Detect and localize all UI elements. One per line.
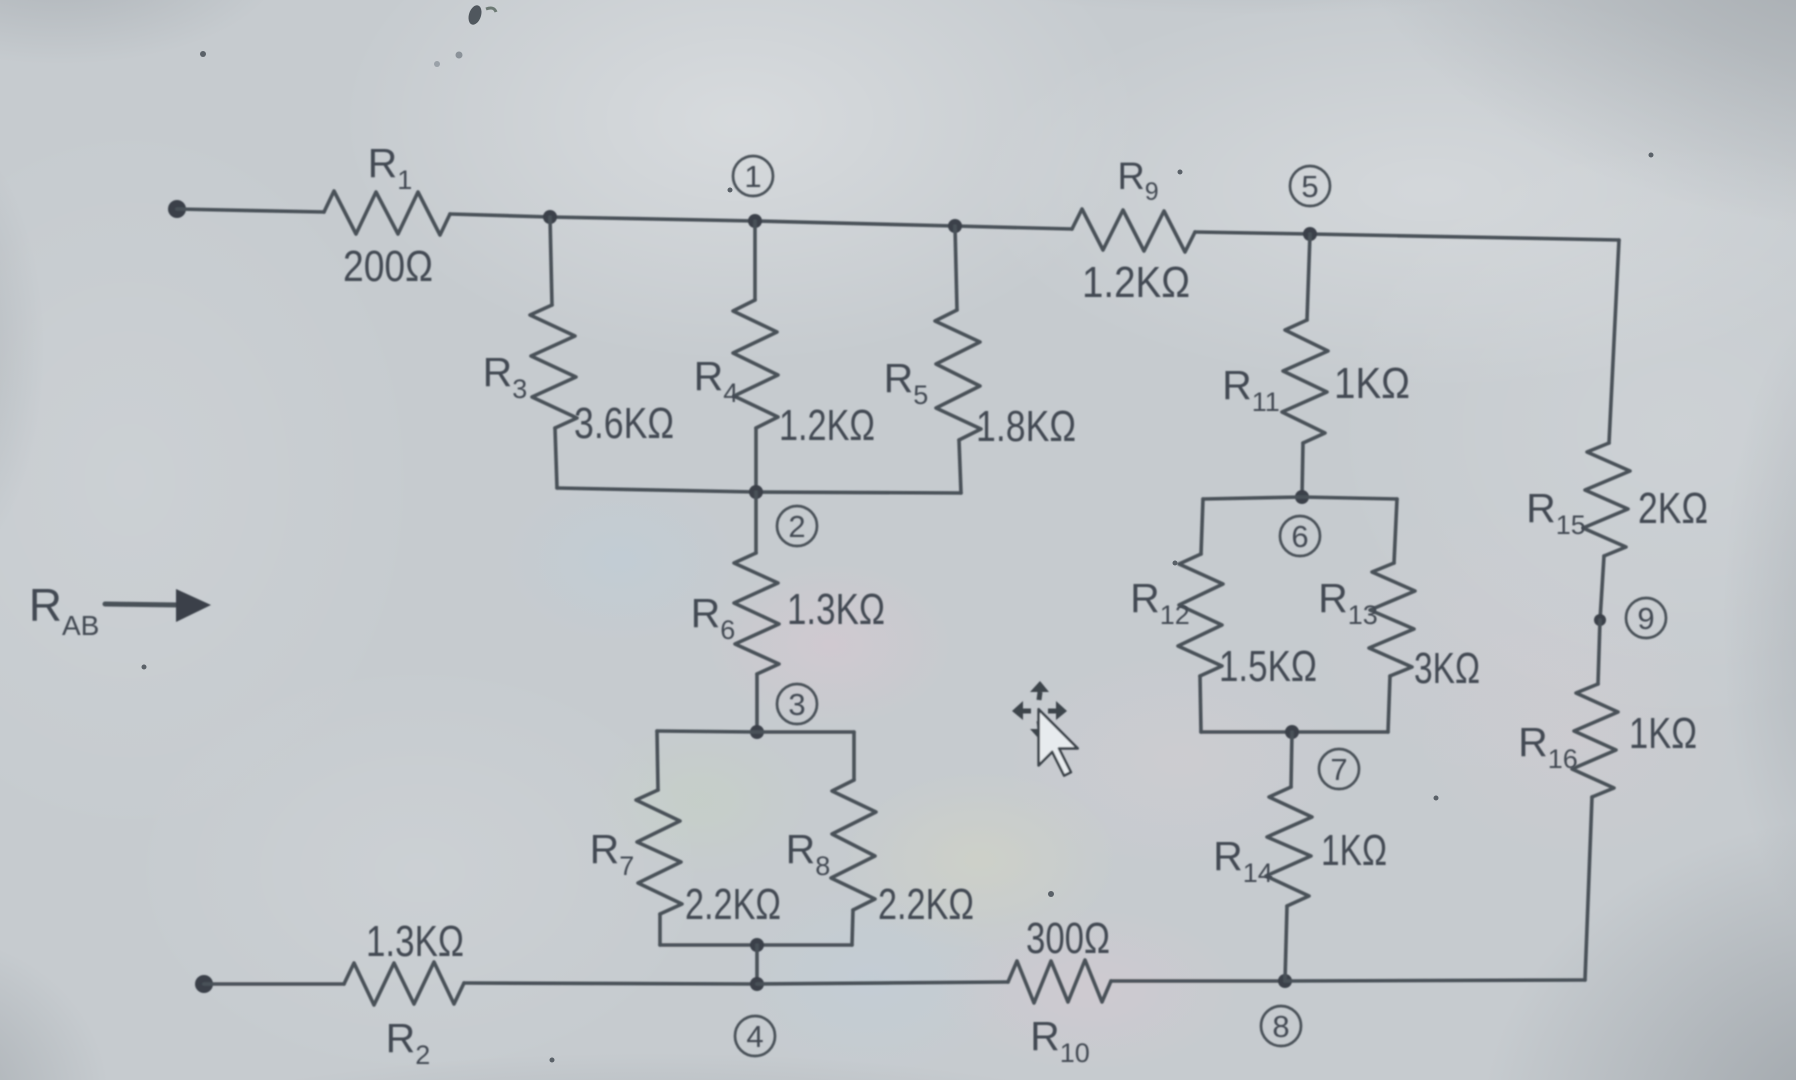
svg-text:200Ω: 200Ω <box>343 242 433 291</box>
svg-text:R15: R15 <box>1526 485 1586 540</box>
node 7 <box>1319 749 1359 789</box>
wire node 4 to R10 <box>757 982 1008 984</box>
resistor R10 <box>1008 960 1111 1003</box>
node 6 <box>1280 516 1320 556</box>
dust speck 5 <box>1434 796 1439 801</box>
svg-text:R7: R7 <box>590 826 635 881</box>
svg-text:R13: R13 <box>1318 575 1378 630</box>
wire down to R12 <box>1201 499 1203 554</box>
wire R10 to node 8 <box>1111 979 1285 983</box>
resistor R1 <box>324 191 450 235</box>
svg-text:R10: R10 <box>1030 1013 1090 1068</box>
resistor R3 <box>530 305 577 428</box>
wire R16 to bottom-right corner <box>1585 797 1592 980</box>
dust speck 1 <box>200 51 206 57</box>
wire node 9 to R16 <box>1598 620 1600 684</box>
wire R4 bottom <box>754 428 758 492</box>
svg-text:R12: R12 <box>1130 575 1190 630</box>
junction dot node 4 <box>750 977 764 991</box>
svg-text:1.8KΩ: 1.8KΩ <box>976 402 1076 451</box>
node 3 <box>777 684 817 724</box>
resistor R8 <box>831 780 876 910</box>
terminal A dot <box>168 200 186 218</box>
junction dot node 3 <box>750 725 764 739</box>
wire node1 down to R5 <box>955 226 957 310</box>
terminal B dot <box>195 975 213 993</box>
wire node 3 top of R7 R8 box <box>657 731 854 732</box>
svg-text:3: 3 <box>788 687 805 722</box>
svg-text:8: 8 <box>1272 1009 1289 1044</box>
junction dot node 8 <box>1278 974 1292 988</box>
wire node 5 down to R11 <box>1307 234 1310 320</box>
wire down to R8 <box>852 732 856 780</box>
cursor move arrows left <box>1012 701 1023 720</box>
junction dot node 6 <box>1295 490 1309 504</box>
resistor R6 <box>734 553 779 674</box>
svg-text:R2: R2 <box>386 1015 431 1070</box>
wire R2 to node 4 <box>464 983 757 984</box>
wire node1 down to R4 <box>753 221 757 300</box>
svg-text:1.2KΩ: 1.2KΩ <box>1082 258 1190 307</box>
svg-text:2KΩ: 2KΩ <box>1638 484 1708 533</box>
cursor move arrows down <box>1030 729 1049 740</box>
svg-text:R9: R9 <box>1117 156 1158 206</box>
wire R6 to node 3 <box>755 674 759 732</box>
wire R9 to node 5 and top-right corner <box>1195 232 1619 240</box>
svg-text:RAB: RAB <box>29 579 100 641</box>
svg-text:1.3KΩ: 1.3KΩ <box>787 585 885 634</box>
svg-text:1: 1 <box>744 159 761 194</box>
svg-text:7: 7 <box>1330 752 1347 787</box>
wire right rail top corner down to R15 <box>1609 240 1619 443</box>
wire node 7 to R14 <box>1291 732 1292 787</box>
wire R14 to node 8 <box>1285 906 1287 981</box>
dust speck 3 <box>1178 170 1183 175</box>
svg-text:4: 4 <box>746 1019 763 1054</box>
wire R3 bottom <box>555 428 557 488</box>
wire B to R2 <box>204 982 344 986</box>
resistor R9 <box>1072 209 1195 252</box>
wire A to R1 <box>177 209 324 212</box>
junction dot top rail at R3 <box>543 210 557 224</box>
svg-text:R6: R6 <box>691 590 736 645</box>
svg-text:2.2KΩ: 2.2KΩ <box>685 880 781 929</box>
svg-text:5: 5 <box>1301 169 1318 204</box>
dust speck 7 <box>1173 561 1178 566</box>
node 1 <box>733 156 773 196</box>
cursor pointer arrow <box>1039 709 1078 775</box>
wire R1 to node 1 top rail <box>450 214 1072 229</box>
svg-text:6: 6 <box>1291 519 1308 554</box>
svg-text:3KΩ: 3KΩ <box>1414 644 1480 693</box>
svg-text:1.2KΩ: 1.2KΩ <box>779 401 875 450</box>
wire bottom of R7 R8 box <box>660 943 852 947</box>
junction dot node 1 at R4 <box>748 214 762 228</box>
wire node 7 bottom of R12 R13 box <box>1201 730 1388 734</box>
wire node1 down to R3 <box>550 217 552 305</box>
wire node2 to R6 <box>754 492 758 553</box>
wire R8 bottom <box>852 910 853 945</box>
junction dot node 7 <box>1285 725 1299 739</box>
wire R12 bottom <box>1200 676 1201 732</box>
dust speck 10 <box>1649 153 1654 158</box>
junction dot node 9 <box>1594 614 1606 626</box>
wire R5 bottom <box>959 440 961 493</box>
node 9 <box>1626 598 1666 638</box>
node 2 <box>777 506 817 546</box>
resistor R4 <box>733 300 778 428</box>
junction dot box bottom <box>750 938 764 952</box>
wire R13 bottom <box>1388 676 1390 732</box>
svg-text:R4: R4 <box>694 353 739 408</box>
arrow RAB shaft <box>105 604 180 605</box>
resistor R12 <box>1178 554 1223 676</box>
wire stub to node 4 <box>755 945 759 984</box>
resistor R5 <box>935 310 981 440</box>
svg-text:1KΩ: 1KΩ <box>1629 709 1697 758</box>
svg-text:1.3KΩ: 1.3KΩ <box>366 917 464 966</box>
resistor R2 <box>344 962 464 1005</box>
dust speck 6 <box>142 665 147 670</box>
wire node 2 horizontal bus <box>557 488 961 493</box>
dust speck 8 <box>550 1058 555 1063</box>
dust mark blob <box>466 4 484 27</box>
svg-text:R3: R3 <box>483 349 528 404</box>
arrow RAB head <box>176 589 211 622</box>
svg-text:R5: R5 <box>884 355 929 410</box>
wire node 6 top of R12 R13 box <box>1203 497 1397 499</box>
node 8 <box>1261 1006 1301 1046</box>
wire down to R7 <box>657 731 658 790</box>
wire down to R13 <box>1394 499 1397 563</box>
resistor R14 <box>1266 787 1312 906</box>
svg-text:300Ω: 300Ω <box>1026 914 1110 963</box>
dust speck 2 <box>728 188 733 193</box>
resistor R7 <box>636 790 682 914</box>
svg-text:R16: R16 <box>1518 719 1578 774</box>
svg-text:1.5KΩ: 1.5KΩ <box>1219 642 1317 691</box>
resistor R11 <box>1282 320 1328 443</box>
svg-text:R11: R11 <box>1222 362 1280 417</box>
node 5 <box>1290 166 1330 206</box>
svg-text:R8: R8 <box>786 826 831 881</box>
svg-text:1KΩ: 1KΩ <box>1334 359 1410 408</box>
resistor R15 <box>1583 443 1630 556</box>
wire R11 to node 6 <box>1302 443 1303 497</box>
junction dot top rail at R5 <box>948 219 962 233</box>
svg-text:R14: R14 <box>1213 833 1273 888</box>
cursor move arrows up <box>1030 681 1049 692</box>
wire node 8 to bottom-right corner <box>1285 980 1585 981</box>
cursor move arrows right <box>1056 701 1067 720</box>
svg-text:3.6KΩ: 3.6KΩ <box>574 399 674 448</box>
node 4 <box>735 1016 775 1056</box>
resistor R16 <box>1572 684 1618 797</box>
svg-text:1KΩ: 1KΩ <box>1321 826 1387 875</box>
svg-text:R1: R1 <box>368 140 413 195</box>
wire R15 to node 9 <box>1600 556 1604 620</box>
svg-text:9: 9 <box>1637 601 1654 636</box>
junction dot node 2 <box>749 485 763 499</box>
junction dot node 5 at R11 <box>1303 227 1317 241</box>
svg-text:2.2KΩ: 2.2KΩ <box>878 880 974 929</box>
svg-text:2: 2 <box>788 509 805 544</box>
resistor R13 <box>1369 563 1415 676</box>
wire R7 bottom <box>658 914 662 945</box>
dust speck 4 <box>1048 891 1054 897</box>
